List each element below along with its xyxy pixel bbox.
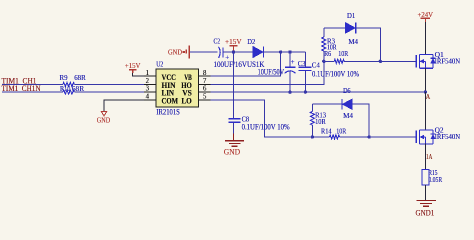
svg-text:7: 7 xyxy=(203,78,207,85)
wire Q1 source to node A xyxy=(424,68,426,92)
resistor R14 xyxy=(330,135,340,139)
wire LO to lower gate row xyxy=(210,100,312,137)
svg-text:10R: 10R xyxy=(338,49,348,58)
svg-text:R9: R9 xyxy=(60,73,68,82)
svg-text:2: 2 xyxy=(146,78,150,85)
junction D6/gate wire xyxy=(367,135,370,138)
svg-text:GND: GND xyxy=(224,147,241,156)
svg-text:0.1UF/100V 10%: 0.1UF/100V 10% xyxy=(312,69,359,78)
svg-text:U2: U2 xyxy=(156,60,163,69)
wire R13 to D6 cathode xyxy=(312,103,342,105)
power port GND (COM) xyxy=(101,112,106,117)
transistor Q2 xyxy=(415,131,417,144)
svg-text:GND: GND xyxy=(97,115,111,124)
resistor R10 xyxy=(63,90,75,94)
capacitor C4 xyxy=(298,66,311,68)
wire R14 to Q2 gate xyxy=(340,136,417,138)
wire D1 cathode to gate row xyxy=(356,28,381,61)
wire +24V to Q1 drain xyxy=(424,22,426,54)
svg-text:+24V: +24V xyxy=(418,10,434,19)
svg-text:0.1UF/100V 10%: 0.1UF/100V 10% xyxy=(242,122,290,131)
svg-text:0.05R: 0.05R xyxy=(428,176,442,184)
diode D2 xyxy=(253,46,263,57)
diode D1 xyxy=(345,23,355,34)
svg-text:4: 4 xyxy=(146,94,150,101)
svg-text:D1: D1 xyxy=(347,11,356,20)
wire VB riser xyxy=(210,52,280,76)
junction LO/R13/R14 xyxy=(311,135,314,138)
junction D1/gate wire xyxy=(379,60,382,63)
wire D6 anode to gate row xyxy=(352,104,369,137)
junction HO/R3/R6 xyxy=(322,60,325,63)
junction C3/VS xyxy=(288,90,291,93)
power port GND1 xyxy=(417,199,436,201)
svg-text:LO: LO xyxy=(181,97,191,106)
transistor Q1 xyxy=(415,55,417,68)
svg-text:10UF/50V: 10UF/50V xyxy=(258,68,285,77)
svg-text:8: 8 xyxy=(203,70,207,77)
wire R10 to LIN xyxy=(74,91,143,93)
svg-text:+15V: +15V xyxy=(225,37,242,46)
svg-text:GND: GND xyxy=(168,47,183,56)
capacitor C3 xyxy=(285,66,296,68)
svg-text:68R: 68R xyxy=(72,84,84,93)
wire HO junction to R6 xyxy=(324,60,334,62)
junction rail/C3 xyxy=(288,50,291,53)
svg-text:M4: M4 xyxy=(348,37,358,46)
junction rail/VB riser xyxy=(279,50,282,53)
wire +15V to pin1 VCC xyxy=(133,73,144,76)
junction +15V/C2/D2/C8 xyxy=(232,50,235,53)
wire node A to Q2 drain xyxy=(424,92,426,130)
junction node A xyxy=(424,90,427,93)
wire Q2 source to R15 xyxy=(424,144,426,170)
svg-text:1: 1 xyxy=(146,70,149,77)
junction C4/VS xyxy=(304,90,307,93)
svg-text:A: A xyxy=(426,92,431,101)
wire COM pin4 to GND xyxy=(104,100,144,112)
svg-text:3: 3 xyxy=(146,86,150,93)
svg-text:IRF540N: IRF540N xyxy=(435,132,461,141)
resistor R13 xyxy=(311,125,313,137)
wire R15 to GND1 xyxy=(424,185,426,200)
wire junction to D2 xyxy=(234,51,254,53)
wire GND port to C2 xyxy=(190,51,218,53)
svg-text:5: 5 xyxy=(203,94,207,101)
wire C2 to junction xyxy=(223,51,234,53)
svg-text:GND1: GND1 xyxy=(416,208,435,217)
wire R6 to Q1 gate xyxy=(344,60,416,62)
svg-text:10R: 10R xyxy=(315,117,326,126)
wire rail corner to C4 xyxy=(304,52,306,67)
wire rail to C3 top xyxy=(289,52,291,67)
wire LO junction to R14 xyxy=(312,136,329,138)
capacitor C8 xyxy=(228,118,240,120)
svg-text:IR2101S: IR2101S xyxy=(156,108,180,117)
svg-text:IRF540N: IRF540N xyxy=(435,57,461,66)
wire C4 bottom to VS row xyxy=(304,71,306,92)
wire TIM1_CH1N to R10 xyxy=(2,91,63,93)
svg-text:+: + xyxy=(291,58,295,66)
resistor R3 xyxy=(323,51,325,61)
svg-text:C2: C2 xyxy=(214,36,221,45)
wire C8 to GND xyxy=(233,122,235,133)
diode D6 xyxy=(341,99,343,110)
resistor R9 xyxy=(63,82,75,86)
wire R9 to HIN xyxy=(74,83,143,85)
wire VS row to node A xyxy=(210,91,425,93)
svg-text:R6: R6 xyxy=(324,49,331,58)
svg-text:1A: 1A xyxy=(426,152,433,161)
wire +15V vertical to C8 xyxy=(233,52,235,118)
svg-text:+15V: +15V xyxy=(125,61,141,70)
svg-text:D6: D6 xyxy=(343,86,351,95)
wire R3 to D1 anode xyxy=(324,27,346,29)
U2 pin stubs and pin numbers xyxy=(144,75,156,77)
resistor R15 xyxy=(422,170,429,185)
wire C3 bottom to VS row xyxy=(289,72,291,93)
resistor R6 xyxy=(334,59,344,63)
op-amp/driver U2 body xyxy=(156,69,198,107)
svg-text:68R: 68R xyxy=(74,73,86,82)
wire HO row xyxy=(210,61,323,84)
wire D2 to C4 corner xyxy=(263,51,305,53)
svg-text:COM: COM xyxy=(162,97,179,106)
capacitor C2 xyxy=(219,47,221,58)
svg-text:C4: C4 xyxy=(312,60,320,69)
wire TIM1_CH1 to R9 xyxy=(2,83,63,85)
svg-text:R10: R10 xyxy=(60,84,70,93)
svg-text:10R: 10R xyxy=(336,126,346,135)
svg-text:D2: D2 xyxy=(247,37,255,46)
svg-text:6: 6 xyxy=(203,86,207,93)
power port GND (C8) xyxy=(233,134,235,141)
svg-text:M4: M4 xyxy=(343,111,353,120)
